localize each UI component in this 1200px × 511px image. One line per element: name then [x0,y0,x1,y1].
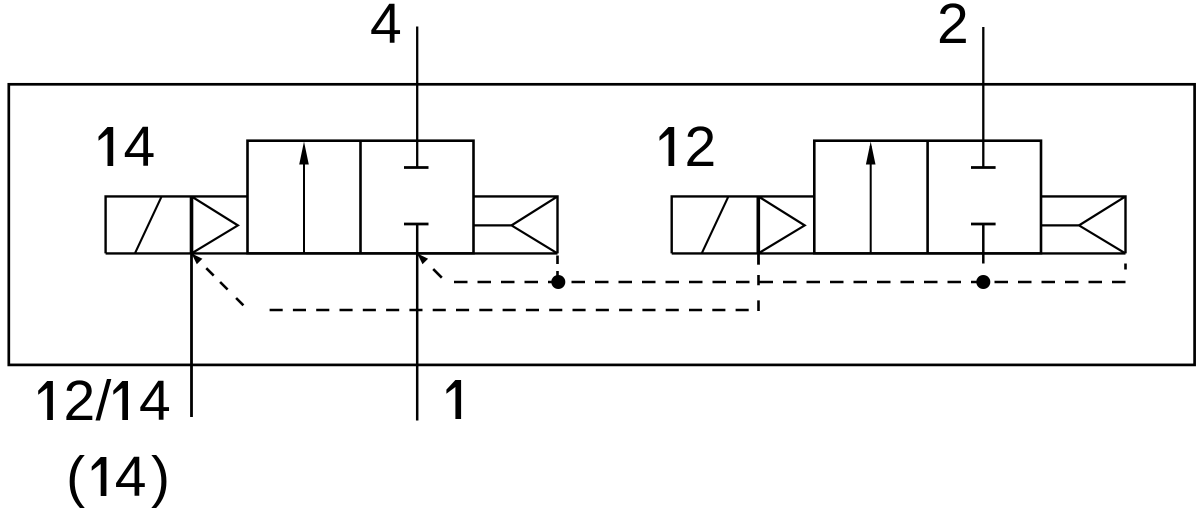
port 2 line [982,27,984,168]
svg-text:2: 2 [63,369,95,433]
pilot line 12 arrowhead [192,253,203,264]
label (14) [66,445,170,509]
valve V2 air spring feed [1041,224,1079,226]
label pilot 14 [99,115,156,179]
svg-text:2: 2 [937,0,969,56]
valve V1 bottom rail [106,252,558,254]
label port 1 [446,380,461,419]
valve V1 flow arrowhead [299,142,309,165]
valve V2 flow arrowhead [866,142,876,165]
svg-text:/: / [96,369,112,433]
valve V1 body [248,141,474,254]
valve V2 pilot triangle [758,196,804,253]
valve V2 body [814,141,1041,254]
valve V1 body divider [359,141,362,254]
svg-text:): ) [151,445,170,509]
valve V2 blocked port 1 bar [971,223,996,226]
valve V1 air spring triangle [512,196,558,253]
valve V1 blocked port 4 bar [404,166,429,169]
valve V2 air spring triangle [1079,196,1126,253]
pilot line 12 riser stub [757,253,760,264]
junction dot B [976,275,990,289]
port 4 line [416,27,418,168]
valve V2 flow arrow [870,146,872,253]
manifold enclosure [9,84,1195,365]
svg-text:(: ( [66,445,85,509]
pilot supply drop V1 [556,256,559,276]
pilot supply horizontal [454,281,1126,284]
svg-text:4: 4 [370,0,402,56]
valve V2 pilot triangle base [756,196,760,253]
svg-text:2: 2 [685,115,717,179]
valve V1 air spring feed [474,224,512,226]
valve V2 body divider [926,141,929,254]
valve V2 solenoid diagonal [702,197,729,254]
svg-text:4: 4 [139,369,171,433]
pilot supply arrowhead [417,253,428,264]
valve V2 solenoid coil [672,196,815,253]
label port 12/14 [38,369,170,433]
valve V2 blocked port 2 bar [971,166,996,169]
svg-text:4: 4 [115,445,147,509]
valve V1 pilot triangle base [190,196,194,253]
valve V2 bottom rail [672,252,1126,254]
port 1 line [416,224,419,421]
junction dot A [551,275,565,289]
pilot line 12 riser [757,275,760,311]
valve V1 solenoid coil [106,196,248,253]
valve V2 air spring box [1041,196,1126,253]
pilot supply diagonal [433,269,442,278]
pilot supply riser V2 [1124,264,1127,270]
pilot line 12 diagonal [206,268,243,305]
valve V2 port 1 stub [982,224,985,264]
valve V1 pilot triangle [192,196,238,253]
valve V1 blocked port 1 bar [404,223,429,226]
valve V1 air spring box [474,196,558,253]
valve V1 solenoid diagonal [135,197,162,254]
pilot line 12 horizontal [270,309,749,312]
valve V1 flow arrow [303,146,305,253]
label pilot 12 [660,115,717,179]
svg-text:4: 4 [124,115,156,179]
port 12/14 line [190,253,193,417]
